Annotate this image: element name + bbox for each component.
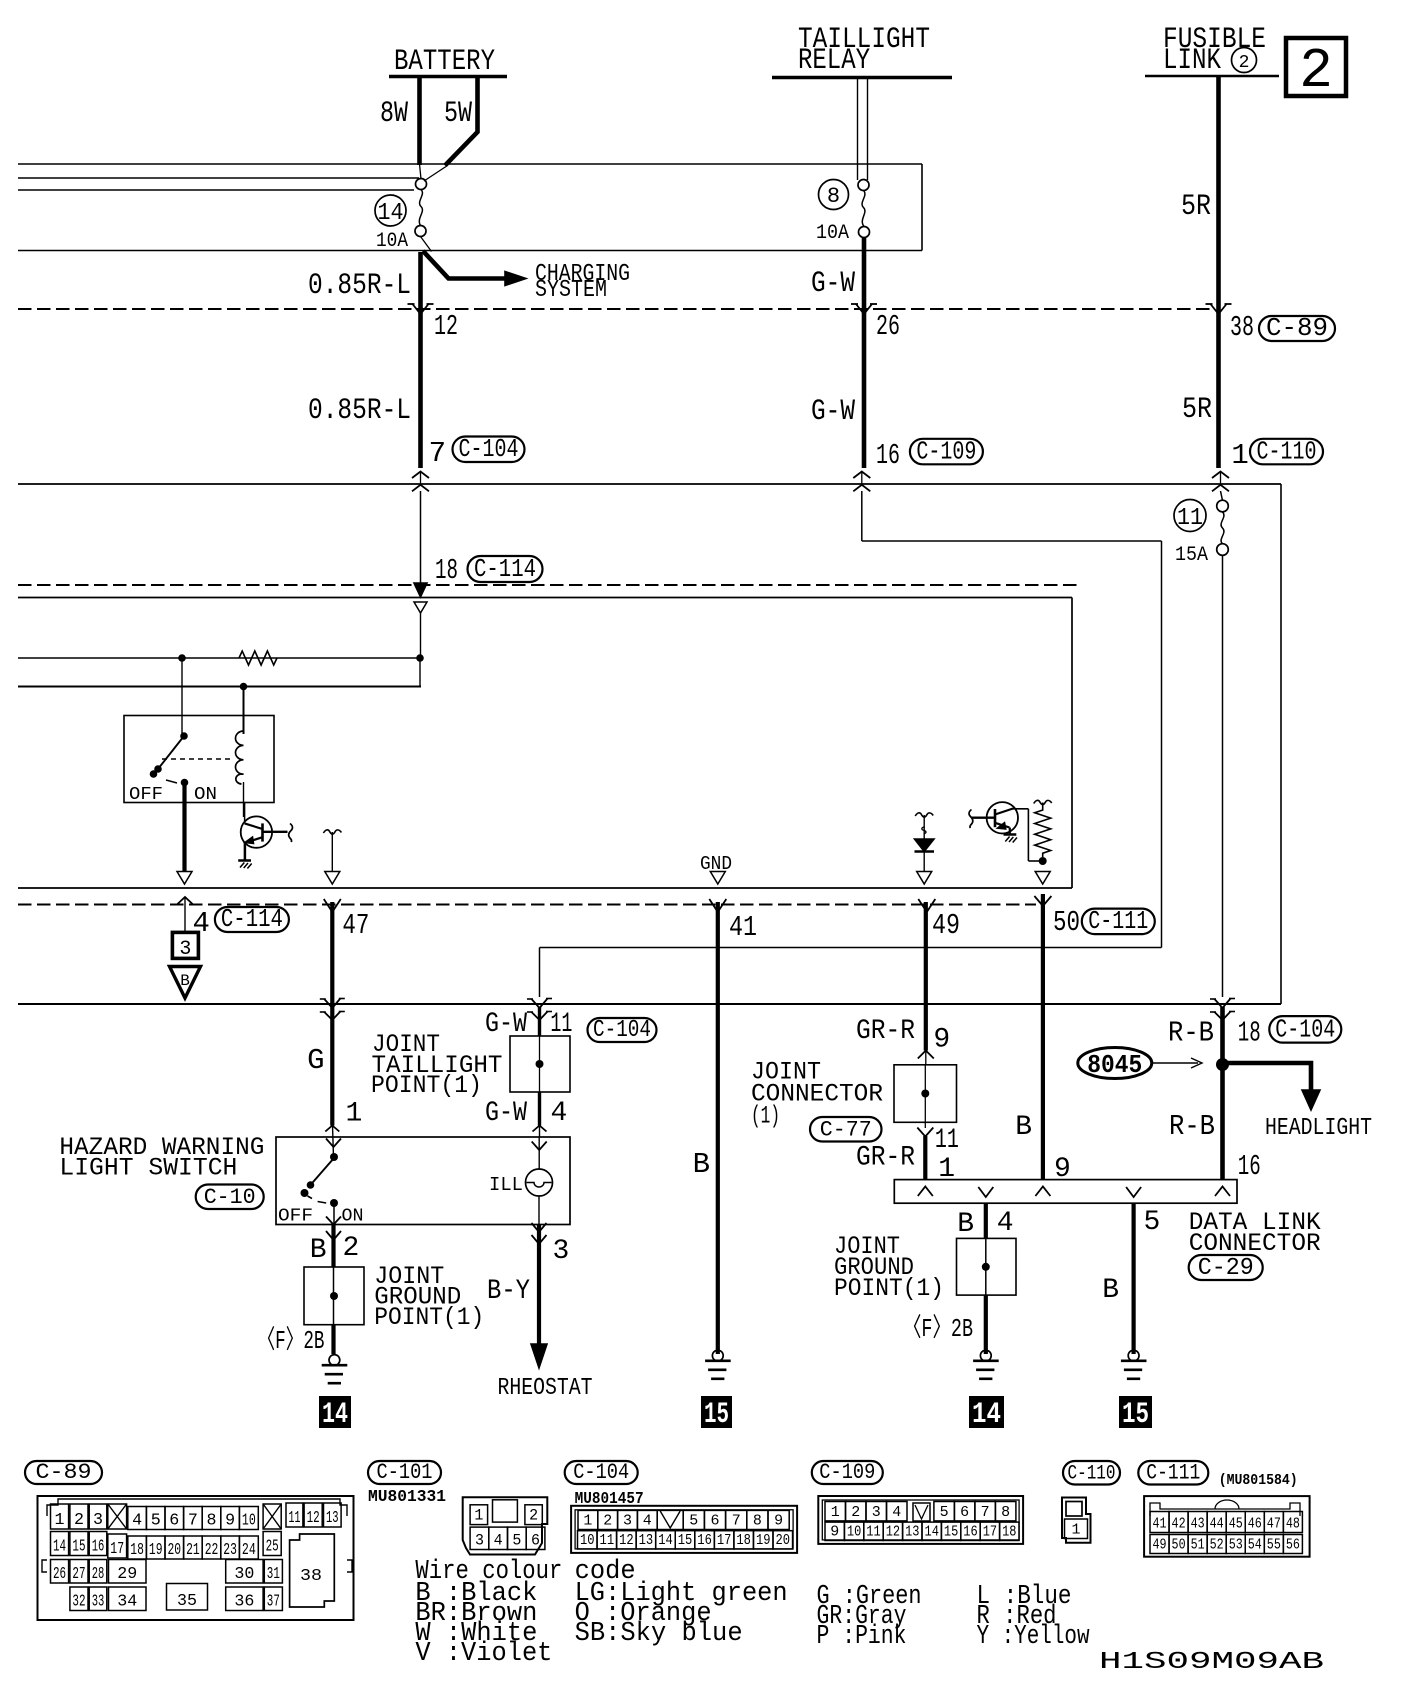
svg-text:ON: ON [194,785,217,805]
svg-text:1: 1 [1231,439,1248,472]
svg-text:G-W: G-W [811,267,855,301]
svg-text:GR-R: GR-R [856,1143,915,1174]
svg-text:C-109: C-109 [916,436,976,466]
bus line to fuse 14 lower [18,189,414,191]
svg-text:B: B [957,1209,974,1240]
svg-text:1: 1 [583,1513,592,1530]
svg-text:43: 43 [1191,1516,1205,1533]
wire 8W battery feed [417,77,422,165]
svg-text:9: 9 [1054,1154,1071,1185]
svg-text:15: 15 [704,1398,729,1432]
connector C-109 label [812,1461,883,1484]
joint ground point right box [957,1238,1017,1295]
transistor Q1 [241,816,272,847]
switch ON contact dot [181,779,189,787]
svg-text:18: 18 [1238,1017,1261,1050]
c-104 key notch [657,1510,683,1529]
svg-text:2: 2 [603,1513,612,1530]
resistor R1 [239,651,277,665]
wire B from 50 [1041,894,1045,1180]
svg-text:18: 18 [130,1541,144,1560]
svg-text:41: 41 [729,911,757,944]
svg-text:7: 7 [981,1504,990,1521]
hazard switch box C-10 [276,1137,570,1225]
svg-text:POINT(1): POINT(1) [371,1071,482,1100]
svg-text:37: 37 [267,1593,280,1612]
svg-text:23: 23 [223,1541,237,1560]
junction block bottom edge [18,250,922,252]
svg-text:15: 15 [944,1524,958,1541]
svg-text:C-111: C-111 [1146,1461,1200,1486]
svg-text:RELAY: RELAY [798,44,870,78]
svg-text:C-110: C-110 [1068,1463,1116,1486]
ground GND wire [712,1350,723,1361]
svg-text:6: 6 [960,1504,969,1521]
wire G-W 4 below joint [538,1092,541,1126]
svg-text:P :Pink: P :Pink [817,1622,907,1652]
svg-text:49: 49 [932,909,960,942]
hazard pin 2 exit [333,1206,335,1225]
svg-text:1: 1 [55,1511,65,1530]
ground pin4 [980,1350,991,1361]
svg-text:14: 14 [322,1398,348,1432]
svg-text:41: 41 [1153,1516,1167,1533]
wire thin leads into fuse 14 [420,164,422,179]
svg-text:12: 12 [307,1509,320,1528]
svg-text:26: 26 [53,1565,66,1584]
wire G hazard feed [330,902,334,1126]
junction block right edge [921,164,923,251]
svg-text:10A: 10A [816,222,849,245]
svg-text:5R: 5R [1181,190,1211,224]
svg-text:50: 50 [1053,906,1080,939]
svg-text:C-104: C-104 [573,1460,629,1485]
triangle exit 49 [917,872,932,885]
dashed harness boundary 904 [18,904,1036,906]
svg-text:24: 24 [242,1541,256,1560]
hazard switch contacts [330,1153,338,1161]
svg-text:56: 56 [1286,1537,1300,1554]
svg-text:29: 29 [117,1565,137,1584]
fuse 11 element [1221,512,1224,544]
svg-text:18: 18 [435,554,458,587]
svg-text:16: 16 [92,1538,105,1557]
wire G-W from fuse 8 [862,237,867,468]
svg-text:(1): (1) [751,1102,780,1131]
svg-text:35: 35 [177,1592,197,1611]
crossing at G wire [324,999,340,1009]
svg-text:17: 17 [983,1524,997,1541]
svg-text:38: 38 [300,1567,322,1586]
svg-text:LINK: LINK [1163,44,1221,78]
svg-text:15A: 15A [1175,544,1208,567]
svg-text:5W: 5W [444,97,472,131]
fuse 14 number [375,195,406,226]
svg-text:46: 46 [1248,1516,1262,1533]
svg-text:17: 17 [717,1532,732,1549]
fusible link circled 2 [1232,48,1257,73]
svg-text:10: 10 [847,1524,861,1541]
bus line 484 [18,483,1281,485]
svg-text:47: 47 [1267,1516,1281,1533]
svg-text:5: 5 [689,1513,698,1530]
svg-text:4: 4 [132,1512,142,1531]
svg-text:27: 27 [72,1565,85,1584]
triangle exit hazard feed [177,872,192,885]
connector crossing 26 [856,304,872,314]
svg-text:32: 32 [72,1593,85,1612]
svg-text:30: 30 [234,1565,254,1584]
svg-text:3: 3 [475,1532,484,1550]
c-109 key notch [913,1503,930,1521]
transistor Q2 [987,802,1018,833]
junction dot A [178,654,186,662]
svg-text:8045: 8045 [1087,1050,1142,1080]
wire F 2B [331,1324,335,1354]
svg-text:12: 12 [886,1524,900,1541]
svg-text:H1S09M09AB: H1S09M09AB [1099,1649,1324,1676]
svg-text:16: 16 [963,1524,977,1541]
svg-text:5R: 5R [1182,393,1212,427]
svg-text:(MU801584): (MU801584) [1219,1472,1298,1489]
connector C-101 body [463,1497,548,1554]
svg-text:ON: ON [342,1207,364,1227]
wire bus 687 [18,686,421,688]
connector C-104 body [571,1506,797,1553]
fuse 14 terminal bottom [415,226,426,237]
svg-text:1: 1 [1072,1522,1081,1539]
wire F 2B right [984,1295,988,1354]
connector crossing 4 C-114 [178,897,193,904]
svg-text:8W: 8W [380,97,408,131]
wire into joint taillight point [538,1007,541,1036]
svg-text:9: 9 [933,1025,950,1056]
svg-text:4: 4 [551,1098,568,1129]
svg-text:C-104: C-104 [1275,1015,1335,1045]
svg-text:1: 1 [346,1099,363,1130]
svg-text:3: 3 [872,1504,881,1521]
triangle exit GND [710,872,725,885]
svg-text:B: B [693,1148,710,1181]
c-89 key X left [108,1504,127,1529]
wire 5R from fusible link [1216,77,1221,468]
hazard pin 3 exit [532,1223,547,1232]
wire taillight relay to fuse 8 double line [857,79,859,180]
svg-text:R-B: R-B [1168,1017,1214,1050]
connector C-104 label [565,1461,638,1484]
joint ground point 1 box [304,1267,364,1325]
svg-text:CONNECTOR: CONNECTOR [1189,1229,1321,1258]
svg-text:4: 4 [892,1504,901,1521]
wire down to resistor bus [420,613,422,658]
svg-text:9: 9 [225,1512,235,1531]
data link connector box C-29 [894,1180,1237,1204]
svg-text:C-114: C-114 [221,904,283,934]
fuse 8 terminal top [858,180,869,191]
wire link 658-687 [419,658,421,687]
svg-text:7: 7 [188,1512,198,1531]
switch mechanical dashed link [162,758,233,760]
svg-text:44: 44 [1210,1516,1224,1533]
svg-text:14: 14 [53,1538,66,1557]
svg-text:14: 14 [658,1532,673,1549]
svg-text:3: 3 [553,1236,570,1267]
svg-text:4: 4 [997,1208,1014,1239]
connector crossing 49 [918,899,935,912]
crossing arrows at 862 [853,472,870,479]
svg-text:SB:Sky blue: SB:Sky blue [575,1619,743,1649]
svg-text:19: 19 [756,1532,771,1549]
dlc pin 1 entry [918,1187,933,1197]
triangle entry inside box [414,602,427,613]
svg-text:C-89: C-89 [36,1460,92,1485]
junction dot C [240,683,248,691]
wire B ground GND [716,902,720,1354]
svg-text:17: 17 [110,1540,124,1559]
svg-text:47: 47 [342,909,369,942]
svg-text:0.85R-L: 0.85R-L [308,269,411,303]
svg-text:5: 5 [940,1504,949,1521]
wire GR-R 11 to 1 [917,1128,933,1137]
ground pin5 [1128,1350,1139,1361]
svg-text:7: 7 [429,437,446,470]
svg-text:15: 15 [1122,1398,1149,1432]
svg-text:51: 51 [1191,1537,1205,1554]
taillight relay feed bar [772,76,952,80]
joint taillight point box [510,1036,570,1092]
svg-text:G: G [307,1044,324,1077]
svg-text:〈F〉2B: 〈F〉2B [903,1314,973,1344]
switch arm [158,736,184,769]
fuse 11 feed [1221,491,1223,501]
connector C-111 label [1138,1461,1208,1485]
svg-text:Y :Yellow: Y :Yellow [977,1622,1090,1652]
wire GR-R from 49 [924,902,928,1051]
svg-text:POINT(1): POINT(1) [834,1274,944,1303]
triangle exit 47 [325,872,340,885]
wire thin below bus at 420 [420,491,422,585]
svg-text:2: 2 [343,1233,360,1264]
svg-text:11: 11 [289,1509,301,1528]
svg-text:MU801331: MU801331 [368,1488,446,1507]
dlc pin 9 entry [1035,1187,1050,1197]
switch pivot dot [180,732,188,740]
wire from fuse 14 to charging tap [421,237,432,252]
arrow to charging system [505,272,526,286]
svg-text:14: 14 [972,1398,1001,1432]
dlc pin 5 exit [1126,1187,1141,1197]
connector C-109 body [818,1496,1023,1544]
svg-text:12: 12 [434,310,458,343]
battery feed bar [389,75,507,79]
ground left [329,1355,340,1366]
svg-text:11: 11 [1177,505,1203,532]
svg-text:34: 34 [117,1593,137,1612]
connector crossing 41 [709,899,726,912]
svg-text:C-77: C-77 [820,1118,872,1143]
bus line 1004 [18,1003,1281,1005]
svg-text:38: 38 [1230,311,1254,344]
fuse 11 number [1174,500,1206,532]
symbol square 3 [172,932,198,958]
connector crossing 50 C-111 [1034,896,1051,906]
meter box right edge [1071,598,1073,889]
svg-text:ILL: ILL [489,1174,523,1196]
junction block top edge [18,163,922,165]
svg-text:31: 31 [267,1565,280,1584]
svg-text:21: 21 [186,1541,200,1560]
bus line to fuse 14 upper [18,177,419,179]
svg-text:B: B [1102,1275,1119,1306]
svg-text:10: 10 [242,1512,256,1531]
transistor Q2 base hook [969,810,973,829]
relay box [124,716,274,803]
svg-text:20: 20 [168,1541,182,1560]
svg-text:RHEOSTAT: RHEOSTAT [498,1375,593,1402]
arrow end at C-114 [414,583,427,597]
svg-text:9: 9 [830,1524,839,1541]
resistor R2 [1035,803,1051,858]
ground ref 14 box right [969,1396,1004,1428]
ground ref 14 box [319,1396,351,1428]
svg-text:5: 5 [151,1512,161,1531]
crossing arrows at 1221 [1212,472,1229,479]
crossing arrows at 420 [412,472,429,479]
svg-text:G-W: G-W [485,1098,527,1129]
svg-text:16: 16 [876,439,900,472]
svg-text:10A: 10A [376,230,408,253]
c-89 pin 38 big [290,1534,335,1607]
svg-text:11: 11 [935,1125,959,1156]
wire 0.85R-L main down [418,252,423,468]
svg-text:BATTERY: BATTERY [394,45,495,79]
svg-text:25: 25 [266,1538,279,1557]
meter box top edge [18,597,1072,599]
svg-text:50: 50 [1172,1537,1186,1554]
svg-text:POINT(1): POINT(1) [374,1303,484,1332]
fuse 8 element [862,191,865,227]
switch link dash [166,780,177,783]
wire G-W routing from 16 [861,491,863,541]
connector C-110 body [1062,1498,1091,1543]
ground hatch Q2 [1004,833,1017,836]
svg-text:C-101: C-101 [377,1460,433,1485]
svg-text:0.85R-L: 0.85R-L [308,394,411,428]
svg-text:OFF: OFF [129,785,163,805]
diode D1 break [915,813,933,817]
connector crossing 38 C-89 [1211,304,1227,314]
svg-text:B: B [180,972,190,990]
svg-text:B: B [1015,1112,1032,1143]
wire from ON contact down [182,783,186,872]
fuse 11 terminal bottom [1217,544,1229,556]
fuse 8 number [819,180,849,210]
svg-text:B: B [310,1235,327,1266]
c-89 key X right [263,1504,281,1529]
resistor bus line [18,657,420,659]
svg-text:14: 14 [925,1524,939,1541]
svg-text:53: 53 [1229,1537,1243,1554]
svg-text:8: 8 [1001,1504,1010,1521]
svg-text:R-B: R-B [1169,1110,1215,1143]
wire 5W battery feed [445,77,478,166]
fuse 8 terminal bottom [859,227,870,238]
crossing R-B 18 C-104 [1215,999,1231,1009]
svg-text:V :Violet: V :Violet [415,1639,552,1669]
svg-text:36: 36 [234,1593,254,1612]
svg-text:8: 8 [753,1513,762,1530]
connector crossing 12 [413,304,429,314]
dlc pin 16 entry [1215,1187,1230,1197]
svg-text:2: 2 [1299,39,1333,103]
svg-text:26: 26 [876,310,900,343]
svg-text:C-109: C-109 [819,1460,875,1485]
svg-text:3: 3 [623,1513,632,1530]
dashed harness boundary 585 [18,584,1080,586]
triangle exit 50 [1035,872,1050,885]
svg-text:4: 4 [643,1513,652,1530]
svg-text:3: 3 [93,1511,103,1530]
svg-text:G-W: G-W [811,395,855,429]
callout 8045 [1078,1048,1152,1079]
svg-text:11: 11 [600,1532,615,1549]
svg-text:2: 2 [74,1511,84,1530]
dashed harness boundary upper [18,308,1212,310]
svg-text:54: 54 [1248,1537,1262,1554]
connector C-110 label [1063,1461,1120,1485]
svg-text:10: 10 [580,1532,595,1549]
svg-text:7: 7 [732,1513,741,1530]
connector C-111 body [1144,1496,1310,1557]
dlc pin 4 exit [978,1187,993,1197]
svg-text:2: 2 [1239,53,1250,73]
svg-text:LIGHT SWITCH: LIGHT SWITCH [59,1154,237,1183]
svg-text:C-89: C-89 [1266,313,1328,343]
svg-text:28: 28 [92,1565,105,1584]
svg-text:52: 52 [1210,1537,1224,1554]
svg-text:18: 18 [736,1532,751,1549]
ground ref 15 box right [1119,1396,1152,1428]
svg-text:15: 15 [678,1532,693,1549]
svg-text:2: 2 [529,1507,538,1525]
svg-text:C-111: C-111 [1088,906,1148,936]
fuse 14 terminal top [416,179,427,190]
wire break 47 inside box [323,830,341,834]
svg-text:GR-R: GR-R [856,1016,915,1047]
svg-text:15: 15 [72,1538,85,1557]
wire charging system branch [423,251,506,279]
wire from fuse 11 down [1222,555,1224,997]
svg-text:49: 49 [1153,1537,1167,1554]
fusible link feed bar [1145,75,1279,78]
arrow to rheostat [531,1344,547,1368]
ground ref 15 box [701,1396,732,1428]
svg-text:48: 48 [1286,1516,1300,1533]
svg-text:45: 45 [1229,1516,1243,1533]
svg-text:11: 11 [866,1524,880,1541]
fuse 14 element [419,190,422,226]
svg-text:8: 8 [207,1512,217,1531]
svg-text:13: 13 [905,1524,919,1541]
ground hatch Q1 [238,859,251,862]
svg-text:12: 12 [619,1532,634,1549]
svg-text:33: 33 [92,1593,105,1612]
svg-text:14: 14 [378,200,404,227]
svg-text:SYSTEM: SYSTEM [535,277,607,304]
wire R-B down from bus [1220,1007,1225,1180]
connector C-89 body [38,1496,354,1620]
svg-text:1: 1 [474,1507,483,1525]
